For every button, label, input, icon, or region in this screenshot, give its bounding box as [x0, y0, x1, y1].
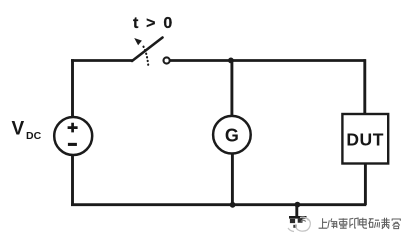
node junction dot at ground: [295, 202, 301, 208]
DUT box: [342, 114, 388, 164]
wire bottom horizontal rail: [71, 203, 366, 206]
wire DUT branch lower: [364, 164, 367, 206]
char 电: [360, 218, 367, 229]
watermark Chinese text (approximated glyph strokes): [319, 218, 401, 229]
wire left vertical (source to bottom rail): [71, 155, 74, 204]
svg-text:V: V: [12, 118, 25, 139]
char 雷: [339, 218, 348, 229]
node junction dot bottom of G branch: [230, 202, 236, 208]
switch actuation dotted arrow: [143, 46, 148, 65]
svg-text:G: G: [225, 125, 239, 145]
voltage source VDC circle: [54, 117, 92, 155]
ground bar 3: [293, 225, 296, 228]
watermark logo swirl: [288, 217, 310, 231]
wire top-left horizontal: [71, 59, 133, 62]
char 磁: [369, 219, 380, 228]
switch S1 contact circle: [164, 57, 170, 63]
svg-text:t > 0: t > 0: [133, 15, 174, 32]
char 海: [328, 218, 337, 228]
ground bar 2 (broken by watermark): [290, 219, 303, 224]
wire DUT branch upper: [363, 59, 366, 114]
svg-text:DC: DC: [26, 130, 42, 142]
wire G branch lower: [231, 154, 234, 206]
svg-text:DUT: DUT: [346, 129, 384, 149]
switch arrowhead: [134, 38, 142, 45]
VDC plus sign: [68, 123, 78, 133]
watermark logo dark mark: [301, 220, 306, 221]
wire left vertical (source to top rail): [71, 59, 74, 117]
char 兼: [381, 218, 390, 229]
generator G circle: [213, 116, 251, 154]
wire G branch upper: [230, 61, 233, 117]
ground bar 1: [289, 216, 307, 219]
wire top-right horizontal: [170, 59, 365, 62]
VDC minus sign: [68, 143, 77, 146]
char 卯: [350, 218, 359, 228]
switch S1 blade: [132, 38, 163, 62]
node junction dot top of G branch: [228, 58, 234, 64]
char 容: [392, 219, 401, 229]
char 上: [319, 218, 328, 228]
ground stem: [295, 205, 298, 217]
